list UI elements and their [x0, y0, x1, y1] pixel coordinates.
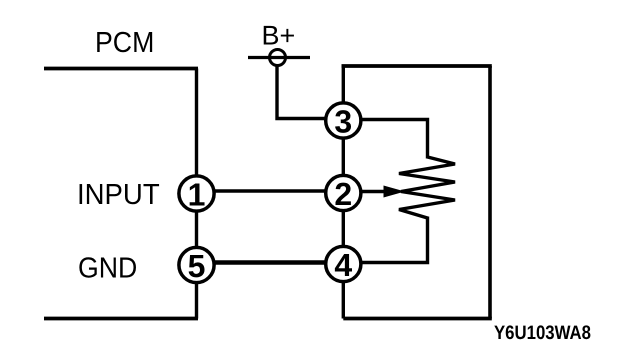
connector pin 5	[179, 247, 214, 284]
svg-text:B+: B+	[262, 21, 296, 51]
sensor box right edge	[488, 66, 492, 319]
wire PCM right edge down to pin 1	[195, 69, 198, 181]
B+ terminal circle	[270, 50, 286, 66]
connector pin 4	[326, 246, 361, 283]
wire pin 3 to resistor top	[343, 120, 427, 159]
svg-text:3: 3	[334, 104, 352, 140]
sensor box bottom edge	[343, 317, 492, 321]
wire pin 3 to pin 2	[342, 133, 345, 180]
svg-text:2: 2	[334, 176, 352, 212]
wire sensor top edge down to pin 3	[342, 66, 345, 108]
wire pin 2 to wiper	[343, 190, 387, 193]
wire pin 5 to pin 4	[197, 260, 344, 264]
sensor box top edge	[342, 64, 492, 68]
svg-text:PCM: PCM	[95, 27, 154, 59]
connector pin 1	[179, 176, 214, 213]
wire pin 1 to pin 5	[195, 205, 198, 252]
connector pin 3	[326, 103, 361, 140]
wire pin 2 to pin 4	[342, 205, 345, 252]
resistor R1 (potentiometer element)	[399, 157, 455, 218]
wire pin 4 to resistor bottom	[343, 217, 427, 263]
PCM box top edge	[44, 67, 198, 71]
wire pin 4 to sensor bottom edge	[342, 278, 345, 319]
svg-text:1: 1	[188, 177, 206, 213]
B+ supply rail horizontal bar	[248, 56, 310, 59]
wire pin 1 to pin 2	[197, 189, 344, 192]
wiper arrow	[384, 186, 403, 197]
wire pin 5 to PCM bottom edge	[195, 278, 198, 319]
svg-text:Y6U103WA8: Y6U103WA8	[494, 322, 591, 344]
svg-text:4: 4	[334, 247, 352, 283]
svg-text:5: 5	[188, 248, 206, 284]
wire B+ stem down and over to pin 3	[277, 66, 343, 119]
PCM box bottom edge	[44, 317, 198, 321]
connector pin 2	[326, 175, 361, 212]
svg-text:INPUT: INPUT	[77, 179, 160, 211]
svg-text:GND: GND	[78, 253, 137, 285]
